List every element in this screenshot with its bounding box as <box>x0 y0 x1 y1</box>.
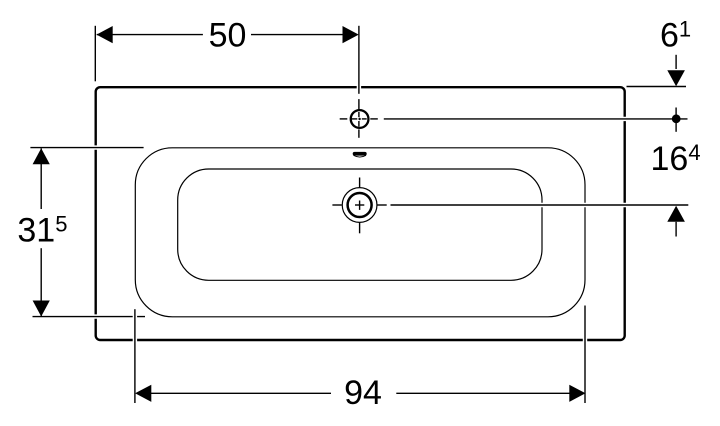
drain inner circle <box>348 193 372 217</box>
ext line 94 left <box>133 309 137 403</box>
faucet hole centerline dashes (vertical) <box>358 99 360 138</box>
ref line for dim 31.5 top (basin top extended) <box>30 145 143 149</box>
drain centerline extended right <box>391 203 689 207</box>
ext line 50 left <box>94 26 96 82</box>
dim 6.1 arrow tail <box>675 55 677 69</box>
basin outer rounded rect <box>135 148 585 317</box>
arrow 31.5 up <box>33 148 50 164</box>
dim line 50 <box>97 34 359 36</box>
drain center cross <box>355 201 364 210</box>
arrow 31.5 down <box>33 301 50 317</box>
ext line 50 right / faucet vertical centerline upper <box>357 26 361 94</box>
arrow 16.4 up <box>667 206 685 222</box>
ext line 94 right <box>583 306 587 404</box>
arrow 94 right <box>569 385 585 402</box>
drain outer circle <box>342 188 377 223</box>
arrow 94 left <box>135 385 151 402</box>
drain centerline dashes <box>332 178 386 234</box>
basin inner rounded rect <box>178 169 542 280</box>
dim 16.4 arrow tail <box>675 222 677 237</box>
ref line for dim 31.5 bottom (basin bottom extended) <box>33 314 146 318</box>
dim 16.4 dot crosshair vertical <box>675 108 677 132</box>
faucet hole centerline dashes (horizontal) <box>340 118 378 120</box>
dim line 94 <box>135 392 585 394</box>
dim line 31.5 (vertical, with text gap) <box>40 148 42 316</box>
overflow slot <box>353 152 367 157</box>
faucet hole center dot <box>358 118 360 120</box>
faucet centerline extended right <box>384 117 688 121</box>
ref line for dim 6.1 (top edge level, right side) <box>627 86 687 88</box>
dim 16.4 reference dot <box>672 114 681 123</box>
faucet hole circle <box>351 110 369 128</box>
arrow 6.1 down <box>667 70 685 86</box>
arrow 50 right <box>343 26 359 43</box>
svg-text:94: 94 <box>344 374 382 412</box>
svg-text:50: 50 <box>209 16 247 54</box>
arrow 50 left <box>97 26 113 43</box>
washbasin outer outline (thick rect) <box>96 87 625 340</box>
